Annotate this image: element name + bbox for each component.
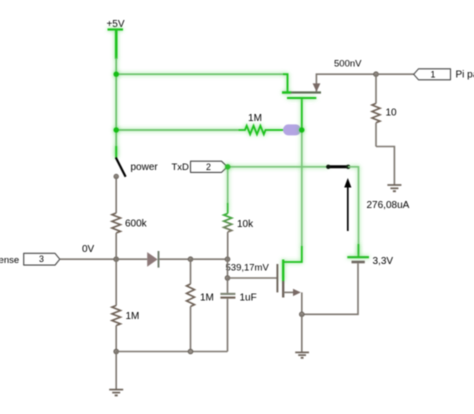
svg-text:1: 1: [431, 70, 436, 80]
svg-text:+5V: +5V: [106, 19, 124, 30]
ground (NMOS source): [295, 352, 309, 357]
svg-text:600k: 600k: [125, 219, 148, 230]
port 3 sense: [24, 253, 60, 265]
wire to diode: [116, 258, 147, 260]
svg-text:10k: 10k: [237, 219, 254, 230]
port 2 TxD: [191, 161, 228, 172]
diode D1: [147, 251, 190, 268]
junction +5V / rail1: [114, 72, 119, 77]
svg-text:2: 2: [206, 162, 211, 172]
svg-text:1M: 1M: [248, 113, 262, 124]
junction TxD: [225, 164, 230, 169]
switch (closed) on TxD: [326, 165, 350, 169]
ground (left): [109, 390, 123, 396]
svg-text:3,3V: 3,3V: [373, 256, 394, 267]
svg-text:1M: 1M: [126, 311, 140, 322]
wire TxD: [228, 166, 329, 168]
ground (under 10 ohm): [387, 185, 401, 191]
resistor 600k: [112, 213, 148, 259]
junction NMOS source node: [300, 312, 305, 317]
port 1 Pi pad: [414, 69, 451, 80]
wire PMOS source lead: [283, 74, 288, 92]
junction 539mV node: [225, 257, 230, 262]
annotation arrow: [344, 178, 351, 231]
junction 0V left: [114, 257, 119, 262]
svg-text:539,17mV: 539,17mV: [226, 263, 270, 274]
svg-text:500nV: 500nV: [334, 59, 362, 70]
transistor Q1 PMOS: [282, 74, 376, 98]
junction diode / 1M mid: [188, 257, 193, 262]
junction 500nV node: [374, 72, 379, 77]
svg-text:1M: 1M: [200, 293, 214, 304]
wire source to ground: [301, 314, 303, 352]
wire rail2 left: [116, 129, 238, 131]
resistor 1M (left): [112, 259, 140, 351]
transistor Q2 NMOS: [228, 246, 302, 314]
wire PMOS gate lead: [301, 98, 303, 130]
svg-text:0V: 0V: [82, 244, 95, 255]
wire switch to 600k: [115, 177, 117, 214]
wire rail1: [116, 73, 284, 75]
junction gate node: [299, 127, 304, 132]
svg-text:Pi pad: Pi pad: [456, 70, 474, 81]
wire bottom rail: [116, 351, 227, 353]
wire to port 1: [378, 73, 414, 75]
wire to left ground: [115, 352, 117, 390]
wire to 539mV node: [191, 258, 228, 260]
junction rail2: [114, 127, 119, 132]
wire battery top lead: [357, 244, 359, 257]
wire port3 to 0V node: [60, 258, 116, 260]
switch power (open): [114, 158, 126, 179]
highlight blob: [283, 124, 301, 135]
wire gate to NMOS drain: [301, 130, 303, 247]
wire 539mV down: [227, 259, 229, 278]
capacitor 1uF: [220, 278, 256, 352]
junction 1M mid bottom: [188, 349, 193, 354]
svg-text:3: 3: [39, 254, 44, 264]
battery 3.3V: [302, 257, 369, 314]
wire 10 ohm to ground: [376, 147, 394, 186]
power rail +5V: [106, 19, 124, 59]
svg-text:276,08uA: 276,08uA: [367, 200, 410, 211]
junction cap/gate node: [225, 276, 230, 281]
resistor 1M (top): [239, 113, 284, 134]
resistor 10: [372, 74, 397, 146]
junction bottom-left: [114, 349, 119, 354]
svg-text:TxD: TxD: [172, 162, 190, 173]
resistor 1M (middle): [187, 259, 214, 351]
resistor 10k: [224, 167, 254, 259]
wire TxD to battery: [348, 167, 359, 256]
wire +5V vertical to switch: [115, 58, 117, 158]
wire switch top lead: [115, 146, 117, 158]
svg-text:1uF: 1uF: [240, 293, 257, 304]
svg-text:power: power: [131, 162, 159, 173]
svg-text:sense: sense: [0, 255, 19, 266]
svg-text:10: 10: [386, 108, 398, 119]
